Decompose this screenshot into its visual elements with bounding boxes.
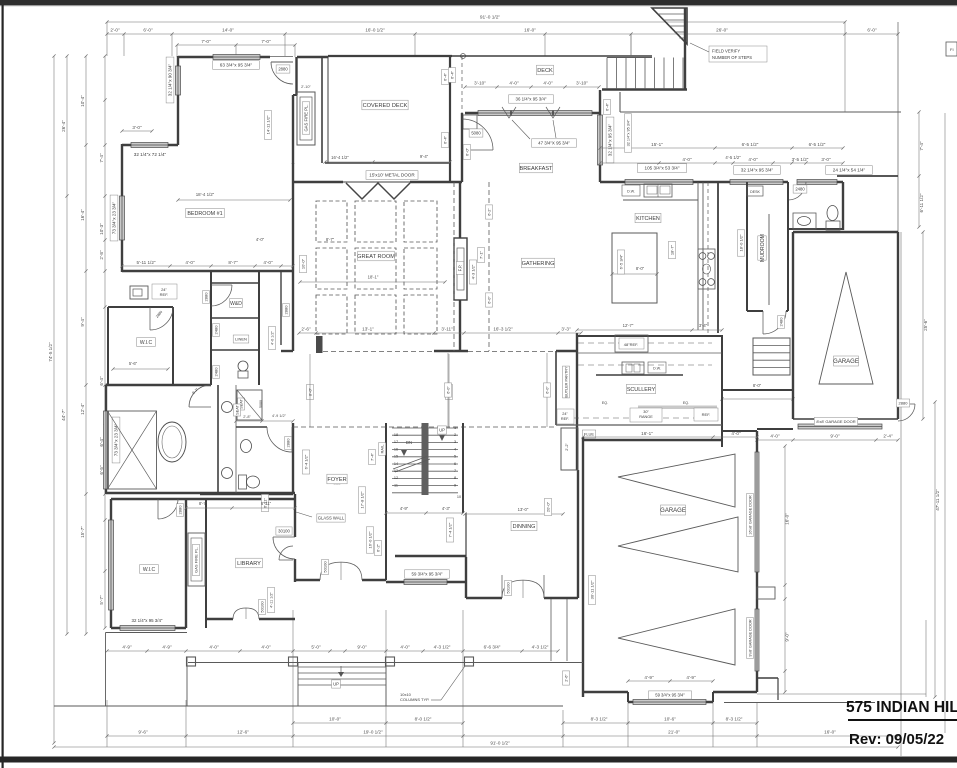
svg-text:RANGE: RANGE: [639, 415, 653, 419]
gathering dashed ceiling lines: [453, 182, 455, 351]
svg-text:NUMBER OF STEPS: NUMBER OF STEPS: [712, 55, 752, 60]
svg-text:2'-2": 2'-2": [565, 443, 569, 451]
cooktop: [698, 249, 715, 289]
svg-text:4'-3": 4'-3": [442, 506, 451, 511]
svg-text:DECK: DECK: [537, 68, 553, 74]
dinning east wall: [577, 470, 579, 598]
svg-text:COVERED DECK: COVERED DECK: [363, 103, 408, 109]
svg-text:F.P.: F.P.: [458, 265, 463, 272]
ne wing wall: [837, 175, 898, 177]
grill nook right of deck: [463, 115, 477, 129]
svg-text:50100: 50100: [505, 582, 510, 594]
svg-text:6'-6 3/4": 6'-6 3/4": [484, 645, 501, 650]
garage2 (right) walls: [793, 231, 898, 233]
svg-text:16'x8' GARAGE DOOR: 16'x8' GARAGE DOOR: [748, 495, 752, 535]
wic2 walls: [110, 499, 112, 628]
master bath block west wall: [105, 385, 107, 494]
svg-text:6'-5 1/2": 6'-5 1/2": [809, 142, 826, 147]
svg-text:7: 7: [454, 469, 456, 473]
svg-text:5080: 5080: [259, 400, 263, 408]
porch columns: [187, 657, 196, 666]
svg-text:MUDROOM: MUDROOM: [760, 234, 766, 262]
svg-text:SCULLERY: SCULLERY: [627, 387, 656, 393]
svg-text:GREAT ROOM: GREAT ROOM: [357, 254, 395, 260]
svg-text:4: 4: [454, 447, 456, 451]
svg-text:5'-0": 5'-0": [311, 645, 321, 650]
svg-text:15'-7": 15'-7": [80, 526, 85, 538]
W&D room: [230, 299, 243, 308]
svg-text:32 1/4"x 95 3/4": 32 1/4"x 95 3/4": [132, 618, 163, 623]
svg-text:10: 10: [457, 495, 461, 499]
utility column walls: [210, 271, 212, 385]
svg-text:12: 12: [394, 476, 398, 480]
svg-text:4'-5 1/2": 4'-5 1/2": [725, 155, 741, 160]
deck dim 26'-0 extension: [630, 34, 632, 56]
svg-text:575 INDIAN HIL: 575 INDIAN HIL: [846, 699, 957, 716]
svg-text:7'-4 1/2": 7'-4 1/2": [447, 522, 452, 537]
butler pantry west wall: [555, 351, 557, 425]
svg-text:2880: 2880: [177, 505, 182, 515]
svg-text:16'-1": 16'-1": [641, 431, 653, 436]
basement stairs: [753, 338, 790, 375]
glass wall note: [317, 514, 345, 522]
long dashed ceiling line: [293, 426, 557, 428]
svg-text:50100: 50100: [322, 561, 327, 573]
kitchen island: [612, 233, 657, 303]
svg-text:47'-11 1/2": 47'-11 1/2": [935, 489, 940, 511]
svg-text:2'-4": 2'-4": [883, 434, 893, 439]
svg-text:18'-0 1/2": 18'-0 1/2": [738, 234, 743, 251]
svg-text:2880: 2880: [285, 438, 290, 448]
svg-text:8'-0": 8'-0": [636, 266, 645, 271]
svg-text:8'-0": 8'-0": [753, 383, 762, 388]
svg-text:2480: 2480: [213, 367, 218, 377]
svg-text:8: 8: [454, 476, 456, 480]
corridor 6'-0 dims: [447, 353, 449, 427]
svg-text:UP: UP: [333, 682, 339, 687]
master tub: [158, 422, 186, 462]
bedroom1 west window 32x90: [176, 66, 181, 95]
svg-text:4'-9 1/2": 4'-9 1/2": [272, 414, 287, 418]
svg-text:24": 24": [562, 412, 568, 416]
svg-text:REF.: REF.: [160, 292, 169, 297]
garage2 side door 2880: [898, 403, 915, 405]
south dim row y333: [299, 332, 581, 334]
linen: [233, 335, 249, 343]
room label gathering: [521, 258, 554, 268]
svg-text:BEDROOM #1: BEDROOM #1: [187, 211, 222, 217]
svg-text:BREAKFAST: BREAKFAST: [520, 166, 554, 172]
svg-text:63 3/4"x 95 3/4": 63 3/4"x 95 3/4": [220, 63, 253, 68]
svg-text:4'-0": 4'-0": [263, 260, 273, 265]
svg-text:3'-10": 3'-10": [576, 81, 588, 86]
svg-text:17: 17: [394, 440, 398, 444]
svg-text:EQ.: EQ.: [683, 401, 689, 405]
garage east wall + doors: [756, 431, 758, 692]
bath window label: [112, 417, 120, 463]
mudroom west wall: [746, 182, 748, 311]
svg-text:2: 2: [454, 433, 456, 437]
bedroom1 west wall lower: [121, 144, 123, 272]
svg-text:2880: 2880: [283, 305, 288, 315]
svg-text:30'-11 1/2": 30'-11 1/2": [589, 580, 594, 599]
svg-text:6'-0": 6'-0": [545, 386, 549, 394]
stairwell west wall: [385, 423, 387, 580]
svg-text:59 3/4"x 95 3/4": 59 3/4"x 95 3/4": [412, 572, 443, 577]
bottom border bar: [0, 757, 957, 763]
breakfast west door 5080: [462, 149, 493, 151]
svg-text:4'-9": 4'-9": [162, 645, 172, 650]
foyer front wall and entry: [295, 579, 320, 581]
deck dimension row: [465, 86, 599, 88]
svg-text:8'-7": 8'-7": [199, 501, 208, 506]
mudroom east wall: [787, 182, 789, 311]
svg-text:3: 3: [454, 440, 456, 444]
great room fireplace bump: [454, 238, 467, 300]
svg-text:SEAT: SEAT: [235, 405, 239, 415]
covered deck west wall: [321, 57, 323, 163]
svg-text:91'-0 1/2": 91'-0 1/2": [490, 741, 510, 746]
room label covered deck: [362, 100, 408, 110]
svg-text:15'x10' METAL DOOR: 15'x10' METAL DOOR: [369, 173, 415, 178]
svg-text:UP: UP: [439, 428, 445, 433]
open deck north edge: [452, 55, 652, 57]
library gas fireplace: [205, 499, 207, 628]
wic1 door: [149, 307, 151, 330]
svg-text:105 3/4"x 53 3/4": 105 3/4"x 53 3/4": [645, 166, 680, 171]
bedroom1 entry door 2880 from deck hall: [270, 56, 293, 58]
master bath entry arc: [189, 406, 211, 408]
library-foyer door: [273, 536, 295, 538]
svg-text:6'-2": 6'-2": [487, 208, 491, 216]
svg-text:2880: 2880: [278, 67, 288, 72]
room label scullery + fixtures: [626, 384, 655, 393]
master bath north wall: [106, 384, 211, 386]
svg-text:GAS FIRE PL.: GAS FIRE PL.: [193, 547, 198, 573]
svg-text:26'-4": 26'-4": [61, 120, 66, 132]
svg-text:10'-4": 10'-4": [80, 95, 85, 107]
svg-text:7'-4": 7'-4": [99, 153, 104, 163]
svg-text:2880: 2880: [899, 400, 909, 405]
svg-text:9'-0": 9'-0": [830, 434, 840, 439]
svg-text:6'-11": 6'-11": [261, 501, 272, 506]
deck stairs top-right wedge: [652, 8, 687, 44]
svg-text:3'-3": 3'-3": [561, 327, 571, 332]
svg-text:36 1/4"x 95 3/4": 36 1/4"x 95 3/4": [516, 97, 547, 102]
svg-text:18'-7": 18'-7": [669, 244, 674, 255]
svg-text:12'-4": 12'-4": [80, 403, 85, 415]
svg-text:32 1/4"x 95 3/4": 32 1/4"x 95 3/4": [608, 123, 613, 156]
svg-text:7'-0": 7'-0": [201, 39, 211, 44]
mudroom entry door 2480: [787, 182, 789, 200]
svg-text:2'-8": 2'-8": [99, 250, 104, 260]
garage north jog: [721, 431, 723, 447]
great room north wall with metal door: [293, 181, 343, 183]
svg-text:5'-6": 5'-6": [129, 361, 138, 366]
svg-text:2480: 2480: [795, 187, 805, 192]
svg-text:12'-6": 12'-6": [237, 730, 249, 735]
svg-text:20'-0": 20'-0": [545, 501, 550, 512]
top dimension row 3 (7'-0 / 7'-0): [177, 44, 295, 46]
svg-text:4'-0": 4'-0": [256, 237, 265, 242]
wic2 door: [157, 499, 159, 519]
svg-text:8'-3 1/2": 8'-3 1/2": [591, 717, 608, 722]
svg-text:13'-1": 13'-1": [362, 327, 374, 332]
svg-text:DINNING: DINNING: [513, 524, 536, 530]
hall west wall / foyer west wall: [292, 423, 294, 494]
svg-text:KITCHEN: KITCHEN: [636, 216, 660, 222]
svg-text:GARAGE: GARAGE: [660, 508, 686, 514]
bottom dimension row 2: [107, 735, 898, 737]
svg-text:9'-6": 9'-6": [138, 730, 148, 735]
kitchen windows: [625, 180, 693, 185]
svg-text:4'-0": 4'-0": [185, 260, 195, 265]
svg-text:3'-10": 3'-10": [474, 81, 486, 86]
svg-text:21'-0": 21'-0": [668, 730, 680, 735]
svg-text:14'-0": 14'-0": [222, 27, 234, 32]
garage car triangles: [618, 454, 735, 507]
south wall of great room / gathering y351: [281, 350, 293, 352]
svg-text:11: 11: [394, 483, 398, 487]
svg-text:16'-3 1/2": 16'-3 1/2": [493, 327, 513, 332]
svg-text:2'-6": 2'-6": [301, 327, 311, 332]
bedroom1 north window 63x95: [213, 55, 260, 60]
svg-text:15: 15: [394, 455, 398, 459]
svg-text:GATHERING: GATHERING: [522, 261, 555, 267]
room label foyer: [327, 474, 347, 484]
landing walls: [722, 389, 793, 391]
powder fixtures: [793, 213, 816, 229]
hall east wall: [280, 271, 282, 345]
svg-text:REF.: REF.: [702, 412, 711, 417]
fridge nook: [130, 286, 148, 299]
svg-text:7'-0": 7'-0": [261, 39, 271, 44]
svg-text:4'-3 1/2": 4'-3 1/2": [532, 645, 549, 650]
svg-text:4'-0 1/2": 4'-0 1/2": [270, 330, 274, 345]
svg-text:73 3/4"x 23 3/4": 73 3/4"x 23 3/4": [112, 201, 117, 234]
svg-text:4'-3 1/2": 4'-3 1/2": [434, 645, 451, 650]
left border line: [2, 5, 4, 768]
svg-text:10'-0": 10'-0": [329, 717, 341, 722]
svg-text:4'-0": 4'-0": [682, 157, 692, 162]
svg-text:D.W.: D.W.: [627, 190, 635, 194]
porch edge lines: [106, 632, 188, 634]
svg-text:6'-11 1/2": 6'-11 1/2": [919, 193, 924, 212]
great room west wall: [292, 163, 294, 351]
covered deck floor edge: [325, 162, 450, 164]
svg-text:30": 30": [643, 410, 649, 414]
svg-text:73 3/4"x 23 3/4": 73 3/4"x 23 3/4": [114, 423, 119, 456]
svg-text:6'-4": 6'-4": [442, 72, 447, 81]
bedroom1 east wall: [295, 57, 297, 95]
svg-text:9'-4": 9'-4": [80, 317, 85, 327]
kitchen counter: [623, 199, 698, 201]
svg-text:16'-0": 16'-0": [785, 513, 790, 525]
mudroom to garage door 2480: [747, 310, 763, 312]
svg-text:6'-4": 6'-4": [604, 102, 609, 111]
svg-text:16'-4": 16'-4": [80, 209, 85, 221]
svg-text:3'-11": 3'-11": [441, 327, 453, 332]
metal door fold panels: [346, 183, 410, 199]
below-stair walls: [395, 555, 466, 557]
svg-text:7'-1": 7'-1": [478, 250, 483, 259]
svg-text:5'-11 1/2": 5'-11 1/2": [136, 260, 155, 265]
garage se step: [757, 677, 778, 679]
roof line over rear porch: [620, 111, 901, 113]
great room south dims: [306, 385, 313, 400]
svg-text:GAS FIRE PL.: GAS FIRE PL.: [304, 105, 309, 132]
svg-text:8'x8' GARAGE DOOR: 8'x8' GARAGE DOOR: [816, 419, 855, 424]
room label bedroom1: [186, 208, 224, 217]
svg-text:24 1/4"x 54 1/4": 24 1/4"x 54 1/4": [833, 168, 866, 173]
dim 3'-0 jog: [122, 130, 152, 132]
svg-text:2880: 2880: [203, 292, 208, 302]
svg-text:10'-3": 10'-3": [99, 223, 104, 235]
kitchen tall cabinets: [697, 182, 699, 330]
scullery south wall: [556, 424, 722, 426]
svg-text:16'-0": 16'-0": [824, 730, 836, 735]
garage2 car triangle: [819, 272, 873, 384]
svg-text:2'-6": 2'-6": [564, 674, 568, 682]
svg-text:8'-7": 8'-7": [326, 237, 335, 242]
hall south walls: [200, 493, 293, 495]
svg-text:4'-9": 4'-9": [686, 675, 696, 680]
svg-text:6'-4": 6'-4": [449, 70, 454, 79]
svg-text:2480: 2480: [213, 325, 218, 335]
svg-text:EQ.: EQ.: [602, 401, 608, 405]
deck roof dashed edge: [461, 56, 463, 163]
gas fireplace chase (bedroom/deck): [297, 92, 315, 145]
svg-text:GARAGE: GARAGE: [833, 359, 859, 365]
bottom extension lines: [106, 700, 108, 747]
svg-text:32 1/4"x 72 1/4": 32 1/4"x 72 1/4": [134, 152, 167, 157]
svg-text:6'-0": 6'-0": [464, 147, 469, 156]
svg-text:7'-4": 7'-4": [919, 141, 924, 151]
great room east wall: [459, 182, 461, 238]
svg-text:BUTLER PANTRY: BUTLER PANTRY: [564, 366, 568, 398]
svg-text:~~~: ~~~: [333, 482, 341, 487]
svg-text:FLUE: FLUE: [584, 431, 595, 436]
svg-text:12'-7": 12'-7": [623, 323, 634, 328]
room label deck: [537, 65, 554, 75]
covered deck east wall: [449, 56, 451, 182]
master entry door: [279, 559, 293, 561]
svg-text:2'-8": 2'-8": [243, 415, 251, 419]
bedroom1 wall jog: [122, 144, 178, 146]
svg-text:5080: 5080: [471, 131, 481, 136]
svg-text:18: 18: [394, 433, 398, 437]
scullery east wall: [721, 335, 723, 447]
svg-text:19'-0 1/2": 19'-0 1/2": [363, 730, 383, 735]
svg-text:4'-0": 4'-0": [770, 434, 780, 439]
svg-text:REF.: REF.: [561, 417, 569, 421]
svg-text:LIBRARY: LIBRARY: [237, 561, 261, 567]
svg-text:4'-0": 4'-0": [261, 645, 271, 650]
svg-text:18'-4 1/2": 18'-4 1/2": [196, 192, 215, 197]
svg-text:9'x8' GARAGE DOOR: 9'x8' GARAGE DOOR: [748, 619, 752, 657]
svg-text:2480: 2480: [778, 317, 783, 327]
svg-text:10'-0": 10'-0": [300, 258, 305, 269]
bedroom south dim row: [122, 265, 293, 267]
svg-text:32 1/4"x 95 3/4": 32 1/4"x 95 3/4": [741, 168, 774, 173]
svg-text:FI: FI: [950, 47, 954, 52]
bedroom1 west wall upper: [177, 56, 179, 145]
covered deck north wall: [328, 55, 452, 57]
svg-text:6'-0": 6'-0": [867, 27, 877, 32]
svg-text:2'-0": 2'-0": [110, 27, 120, 32]
svg-text:2'-10": 2'-10": [301, 85, 311, 89]
svg-text:16'-0 1/2": 16'-0 1/2": [367, 531, 372, 548]
svg-text:6'-4": 6'-4": [99, 376, 104, 386]
svg-text:4'-9": 4'-9": [644, 675, 654, 680]
svg-text:6'-5 3/4": 6'-5 3/4": [618, 254, 623, 269]
room label mudroom: [758, 236, 766, 260]
svg-text:6'-0": 6'-0": [143, 27, 153, 32]
left dimension column lines: [53, 56, 55, 743]
svg-text:4'-0": 4'-0": [731, 431, 741, 436]
foyer dims: [358, 487, 365, 513]
closet X box: [108, 411, 157, 489]
bedroom1 north wall: [178, 56, 270, 58]
master shower: [237, 390, 262, 420]
bottom porch dimension row: [107, 650, 558, 652]
svg-text:W&D: W&D: [230, 301, 242, 307]
svg-text:9'-0": 9'-0": [785, 632, 790, 642]
svg-text:5: 5: [454, 455, 456, 459]
room label breakfast: [519, 163, 552, 173]
svg-text:4'-9": 4'-9": [122, 645, 132, 650]
svg-text:91'-0 1/2": 91'-0 1/2": [480, 15, 501, 21]
svg-text:DESK: DESK: [750, 190, 760, 194]
library south wall and double door: [206, 618, 233, 620]
wic1 walls: [107, 307, 109, 385]
toilet room door: [291, 427, 293, 452]
powder south wall: [788, 228, 843, 230]
svg-text:16'-4 1/2": 16'-4 1/2": [331, 155, 349, 160]
top border bar: [0, 0, 957, 5]
svg-text:Rev: 09/05/22: Rev: 09/05/22: [849, 731, 944, 748]
dinning exterior step rails: [550, 599, 552, 661]
svg-text:4'-0": 4'-0": [400, 645, 410, 650]
svg-text:9'-0": 9'-0": [357, 645, 367, 650]
field dims right of breakfast: [448, 68, 455, 83]
svg-text:4'-9": 4'-9": [400, 506, 409, 511]
library walls: [186, 498, 295, 500]
svg-text:8'-3 1/2": 8'-3 1/2": [726, 717, 743, 722]
svg-text:3'-0": 3'-0": [132, 125, 142, 130]
svg-text:44'-7": 44'-7": [61, 409, 66, 421]
svg-text:17'-8 1/2": 17'-8 1/2": [359, 491, 364, 508]
garage south wall w/ window bump: [583, 691, 628, 693]
deck stairs risers: [684, 8, 686, 90]
svg-text:6: 6: [454, 462, 456, 466]
svg-text:13'-0": 13'-0": [518, 507, 529, 512]
svg-text:4'-3 1/2": 4'-3 1/2": [470, 264, 475, 279]
svg-text:15'-1": 15'-1": [651, 142, 663, 147]
svg-text:8'-0 1/2": 8'-0 1/2": [415, 717, 432, 722]
svg-text:6'-5 1/2": 6'-5 1/2": [742, 142, 759, 147]
svg-text:DN: DN: [406, 440, 412, 445]
svg-text:W.I.C: W.I.C: [140, 340, 153, 346]
front steps: [298, 666, 386, 668]
scullery north wall: [577, 335, 722, 337]
garage dims: [583, 436, 757, 438]
vertical extension lines top-left: [106, 22, 108, 56]
field verify note: [709, 46, 767, 62]
svg-text:16: 16: [394, 447, 398, 451]
svg-text:COLUMNS TYP.: COLUMNS TYP.: [400, 697, 429, 702]
svg-text:6'-4 1/2": 6'-4 1/2": [303, 454, 308, 469]
